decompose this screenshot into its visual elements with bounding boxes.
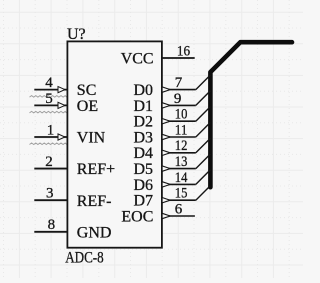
- svg-text:OE: OE: [77, 98, 98, 115]
- svg-text:D4: D4: [133, 145, 153, 162]
- svg-text:D0: D0: [133, 82, 153, 99]
- svg-text:ADC-8: ADC-8: [65, 249, 104, 266]
- svg-text:8: 8: [48, 217, 56, 233]
- svg-text:5: 5: [45, 91, 53, 107]
- svg-text:7: 7: [175, 75, 183, 91]
- svg-text:D1: D1: [133, 98, 153, 115]
- svg-text:3: 3: [46, 186, 54, 202]
- svg-text:D3: D3: [133, 129, 153, 146]
- svg-text:15: 15: [175, 186, 188, 202]
- svg-text:4: 4: [45, 75, 53, 91]
- svg-text:D7: D7: [133, 193, 153, 210]
- svg-text:6: 6: [175, 201, 183, 217]
- svg-text:10: 10: [175, 107, 188, 123]
- svg-text:9: 9: [174, 91, 182, 107]
- svg-text:12: 12: [175, 138, 188, 154]
- svg-text:1: 1: [47, 122, 55, 138]
- svg-text:GND: GND: [77, 224, 112, 241]
- svg-text:D2: D2: [133, 114, 153, 131]
- svg-text:16: 16: [177, 43, 191, 59]
- svg-text:14: 14: [175, 170, 188, 186]
- svg-text:EOC: EOC: [121, 209, 153, 226]
- svg-text:REF-: REF-: [77, 193, 112, 210]
- svg-text:2: 2: [45, 154, 53, 170]
- svg-text:VIN: VIN: [77, 130, 106, 147]
- svg-text:U?: U?: [67, 26, 86, 43]
- svg-text:13: 13: [175, 154, 188, 170]
- svg-text:VCC: VCC: [121, 51, 154, 68]
- svg-text:SC: SC: [77, 82, 97, 99]
- svg-text:D5: D5: [133, 161, 153, 178]
- svg-text:D6: D6: [133, 177, 153, 194]
- svg-text:REF+: REF+: [77, 161, 115, 178]
- svg-text:11: 11: [175, 122, 188, 138]
